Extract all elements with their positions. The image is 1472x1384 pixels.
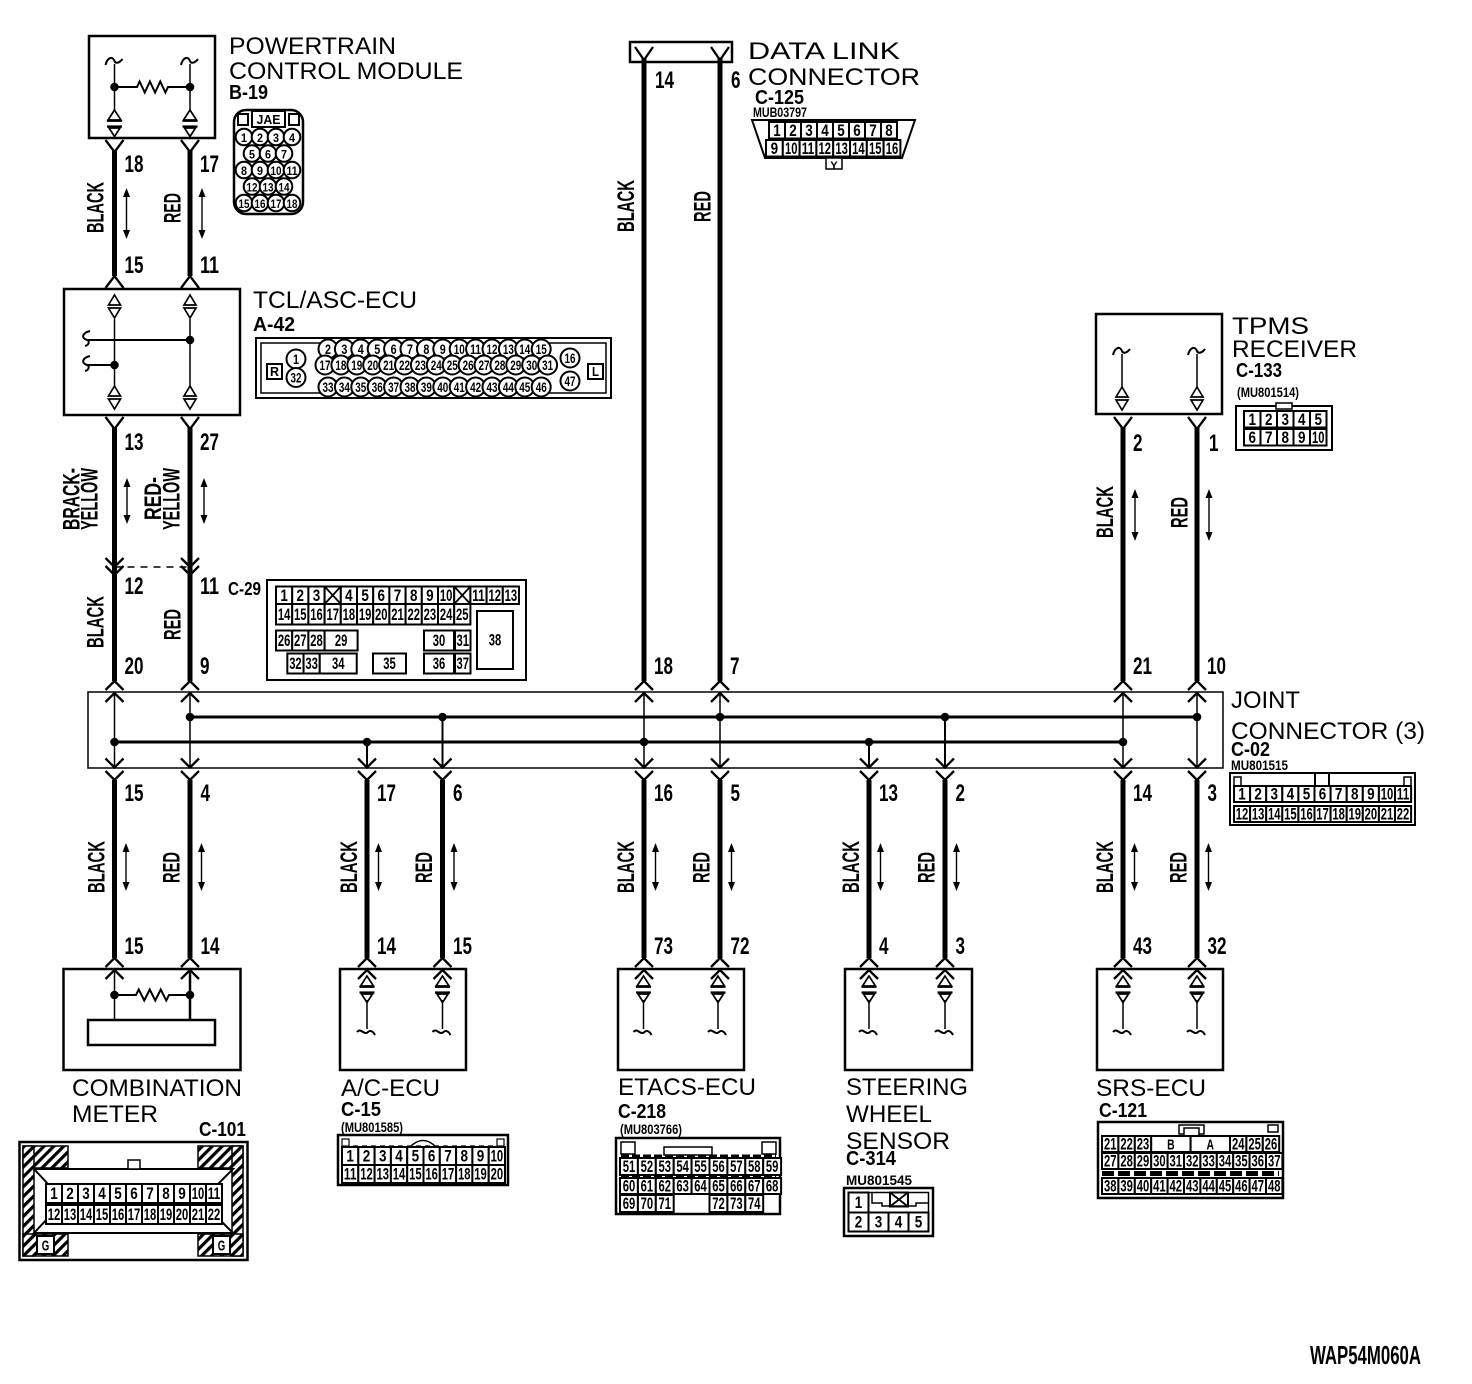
svg-text:58: 58: [748, 1157, 761, 1176]
svg-text:2: 2: [297, 586, 305, 605]
label BLACK (vertical): [838, 841, 865, 893]
svg-text:9: 9: [257, 164, 263, 178]
svg-text:18: 18: [654, 653, 673, 680]
A/C-ECU C-15 box: [340, 969, 466, 1070]
svg-text:13: 13: [377, 1165, 390, 1184]
svg-text:7: 7: [394, 586, 402, 605]
TCL internal branch lower with pigtail: [83, 356, 119, 371]
label MU801515: [1231, 757, 1288, 773]
svg-text:R: R: [270, 364, 280, 379]
svg-text:21: 21: [391, 605, 404, 624]
svg-text:17: 17: [320, 357, 331, 373]
svg-text:2: 2: [257, 131, 263, 145]
svg-text:47: 47: [1252, 1177, 1265, 1196]
svg-text:31: 31: [542, 357, 553, 373]
DLC wire start left: [635, 47, 653, 60]
label CONTROL MODULE: [229, 58, 463, 85]
svg-text:23: 23: [415, 357, 426, 373]
double arrow red: [728, 843, 735, 891]
svg-text:55: 55: [694, 1157, 707, 1176]
wire BLACK pin2-21: [1114, 417, 1132, 681]
svg-text:23: 23: [424, 605, 437, 624]
svg-text:5: 5: [249, 148, 255, 162]
svg-text:7: 7: [444, 1147, 452, 1166]
pin label 9: [200, 653, 210, 680]
pin label 32: [1208, 933, 1227, 960]
pin label 17: [377, 780, 396, 807]
svg-text:32: 32: [291, 370, 302, 386]
svg-text:15: 15: [125, 933, 144, 960]
TCL terminal bottom-left (triangles): [109, 386, 121, 409]
svg-text:13: 13: [505, 586, 518, 605]
label METER: [72, 1101, 158, 1128]
pin label 13: [879, 780, 898, 807]
svg-text:42: 42: [470, 379, 481, 395]
joint internal wire pair5 black: [1119, 692, 1128, 768]
label RED (vertical): [1166, 852, 1193, 883]
svg-text:RED: RED: [159, 852, 186, 883]
joint internal wire pair5 red: [1193, 692, 1202, 768]
svg-text:34: 34: [332, 654, 345, 673]
svg-text:STEERING: STEERING: [846, 1074, 968, 1101]
svg-text:BLACK: BLACK: [84, 841, 111, 893]
svg-text:45: 45: [1219, 1177, 1232, 1196]
svg-text:10: 10: [440, 586, 453, 605]
svg-text:15: 15: [409, 1165, 422, 1184]
PCM terminal right (triangles): [183, 110, 198, 137]
svg-text:46: 46: [536, 379, 547, 395]
svg-text:36: 36: [1252, 1152, 1265, 1171]
svg-text:16: 16: [112, 1205, 125, 1224]
svg-text:3: 3: [875, 1213, 883, 1232]
svg-text:MU801515: MU801515: [1231, 757, 1288, 773]
TCL internal wire left: [114, 319, 116, 386]
label RED (vertical): [411, 852, 438, 883]
label JOINT: [1231, 687, 1300, 714]
svg-text:8: 8: [461, 1147, 469, 1166]
svg-text:14: 14: [852, 139, 865, 158]
joint internal stub pair2 black: [363, 738, 372, 768]
svg-text:YELLOW: YELLOW: [77, 468, 104, 530]
svg-text:9: 9: [200, 653, 210, 680]
svg-text:18: 18: [144, 1205, 157, 1224]
wire BLACK 17-14: [358, 780, 376, 979]
label RED (vertical): [914, 852, 941, 883]
svg-text:1: 1: [855, 1193, 863, 1212]
label RED (vertical): [159, 852, 186, 883]
svg-text:14: 14: [1133, 780, 1152, 807]
svg-text:4: 4: [1287, 785, 1295, 804]
svg-text:34: 34: [339, 379, 350, 395]
svg-text:17: 17: [128, 1205, 141, 1224]
svg-text:A-42: A-42: [253, 314, 295, 336]
double arrow black wire: [123, 188, 130, 239]
svg-text:9: 9: [440, 341, 446, 357]
svg-text:WHEEL: WHEEL: [846, 1101, 932, 1128]
svg-text:3: 3: [805, 121, 813, 140]
svg-text:11: 11: [472, 586, 485, 605]
svg-text:42: 42: [1170, 1177, 1183, 1196]
label POWERTRAIN: [229, 33, 396, 60]
wire RED 2-3: [936, 780, 954, 979]
svg-text:4: 4: [289, 131, 295, 145]
svg-text:15: 15: [453, 933, 472, 960]
svg-text:5: 5: [374, 341, 380, 357]
joint internal wire pair3 red: [716, 692, 725, 768]
svg-text:53: 53: [659, 1157, 672, 1176]
svg-text:21: 21: [1133, 653, 1152, 680]
svg-text:6: 6: [428, 1147, 436, 1166]
svg-text:13: 13: [835, 139, 848, 158]
connector C-121 pin diagram: [1098, 1122, 1283, 1198]
svg-text:COMBINATION: COMBINATION: [72, 1075, 242, 1102]
svg-text:37: 37: [457, 654, 470, 673]
svg-text:6: 6: [391, 341, 397, 357]
svg-text:RED: RED: [411, 852, 438, 883]
svg-text:RED: RED: [160, 193, 187, 223]
TCL internal wire right: [189, 319, 191, 386]
svg-text:C-121: C-121: [1099, 1100, 1147, 1122]
TPMS receiver C-133 box: [1096, 314, 1222, 414]
svg-text:8: 8: [162, 1184, 170, 1203]
svg-text:SRS-ECU: SRS-ECU: [1096, 1075, 1206, 1102]
label RECEIVER: [1232, 336, 1357, 363]
svg-text:METER: METER: [72, 1101, 158, 1128]
label BLACK (vertical) below C-29: [83, 596, 110, 648]
svg-text:BLACK: BLACK: [336, 841, 363, 893]
svg-text:44: 44: [1202, 1177, 1215, 1196]
svg-text:C-15: C-15: [341, 1099, 381, 1121]
svg-text:30: 30: [526, 357, 537, 373]
svg-text:27: 27: [1104, 1152, 1117, 1171]
svg-text:2: 2: [1133, 430, 1143, 457]
pin label 4: [879, 933, 889, 960]
svg-text:13: 13: [879, 780, 898, 807]
ETACS-ECU C-218 box: [618, 969, 744, 1070]
label A-42: [253, 314, 295, 336]
svg-text:43: 43: [1186, 1177, 1199, 1196]
svg-text:8: 8: [423, 341, 429, 357]
pin label 15: [125, 933, 144, 960]
svg-text:33: 33: [1202, 1152, 1215, 1171]
svg-text:MU801545: MU801545: [846, 1172, 912, 1188]
svg-text:2: 2: [855, 1213, 863, 1232]
svg-text:4: 4: [98, 1184, 106, 1203]
svg-text:1: 1: [280, 586, 288, 605]
svg-text:39: 39: [1120, 1177, 1133, 1196]
svg-text:13: 13: [503, 341, 514, 357]
svg-text:12: 12: [48, 1205, 61, 1224]
svg-text:BLACK: BLACK: [83, 182, 110, 233]
connector C-133 pin diagram: [1236, 403, 1332, 450]
svg-text:9: 9: [178, 1184, 186, 1203]
wire RED pin17-11: [181, 140, 199, 288]
svg-text:3: 3: [1282, 410, 1290, 429]
svg-text:JOINT: JOINT: [1231, 687, 1300, 714]
svg-text:5: 5: [412, 1147, 420, 1166]
pin label 17: [200, 151, 219, 178]
svg-text:4: 4: [201, 780, 211, 807]
label B-19: [229, 82, 268, 104]
pin label 13: [125, 429, 144, 456]
svg-text:40: 40: [1137, 1177, 1150, 1196]
svg-text:17: 17: [271, 197, 282, 211]
svg-text:35: 35: [1235, 1152, 1248, 1171]
svg-text:9: 9: [1367, 785, 1375, 804]
svg-text:2: 2: [363, 1147, 371, 1166]
pin label 14: [377, 933, 396, 960]
svg-text:7: 7: [281, 148, 287, 162]
svg-text:1: 1: [773, 121, 781, 140]
pin label 3: [956, 933, 966, 960]
svg-text:3: 3: [379, 1147, 387, 1166]
PCM internal lead right with pigtail: [181, 58, 198, 110]
label C-133: [1236, 360, 1282, 382]
svg-text:G: G: [218, 1238, 226, 1255]
svg-text:54: 54: [676, 1157, 689, 1176]
svg-text:45: 45: [519, 379, 530, 395]
svg-text:18: 18: [287, 197, 298, 211]
meter internal block: [88, 1020, 215, 1045]
pin label 18: [654, 653, 673, 680]
svg-text:13: 13: [263, 181, 274, 195]
TCL terminal top-right (triangles): [184, 295, 196, 318]
PCM terminal left (triangles): [107, 110, 122, 137]
label BLACK (vertical): [84, 841, 111, 893]
svg-text:(MU803766): (MU803766): [620, 1121, 682, 1137]
svg-text:27: 27: [294, 631, 307, 650]
svg-text:20: 20: [125, 653, 144, 680]
svg-text:BLACK: BLACK: [1092, 841, 1119, 893]
C-29 crossing marks red wire: [181, 558, 199, 575]
label C-121: [1099, 1100, 1147, 1122]
TCL/ASC-ECU A-42 box: [64, 289, 240, 415]
svg-text:13: 13: [64, 1205, 77, 1224]
svg-text:14: 14: [393, 1165, 406, 1184]
svg-text:28: 28: [310, 631, 323, 650]
svg-text:22: 22: [407, 605, 420, 624]
svg-text:64: 64: [694, 1177, 707, 1196]
label BLACK (vertical): [83, 182, 110, 233]
joint internal stub pair4 red: [941, 713, 950, 768]
svg-text:52: 52: [641, 1157, 654, 1176]
svg-text:11: 11: [802, 139, 815, 158]
svg-text:8: 8: [1351, 785, 1359, 804]
svg-text:31: 31: [1170, 1152, 1183, 1171]
svg-text:6: 6: [130, 1184, 138, 1203]
data link connector box: [630, 42, 732, 62]
svg-text:12: 12: [360, 1165, 373, 1184]
label A/C-ECU: [341, 1075, 440, 1102]
TCL terminal top-left (triangles): [109, 295, 121, 318]
svg-text:10: 10: [491, 1147, 504, 1166]
svg-text:22: 22: [1397, 805, 1410, 824]
svg-text:7: 7: [869, 121, 877, 140]
svg-text:DATA LINK: DATA LINK: [748, 38, 900, 65]
svg-text:57: 57: [730, 1157, 743, 1176]
svg-text:8: 8: [241, 164, 247, 178]
svg-text:13: 13: [125, 429, 144, 456]
svg-text:14: 14: [377, 933, 396, 960]
svg-text:47: 47: [565, 373, 576, 389]
svg-text:WAP54M060A: WAP54M060A: [1310, 1340, 1421, 1370]
svg-text:65: 65: [712, 1177, 725, 1196]
label CONNECTOR (3): [1231, 718, 1425, 745]
svg-text:63: 63: [676, 1177, 689, 1196]
svg-text:14: 14: [655, 67, 674, 94]
wire RED 3-32: [1188, 780, 1206, 979]
svg-text:56: 56: [712, 1157, 725, 1176]
svg-text:5: 5: [1315, 410, 1323, 429]
label BLACK (vertical): [336, 841, 363, 893]
svg-text:32: 32: [289, 654, 302, 673]
svg-text:15: 15: [96, 1205, 109, 1224]
svg-text:14: 14: [278, 605, 291, 624]
svg-text:7: 7: [730, 653, 740, 680]
svg-text:12: 12: [247, 181, 258, 195]
svg-text:29: 29: [1137, 1152, 1150, 1171]
svg-text:51: 51: [623, 1157, 636, 1176]
label CONNECTOR: [748, 64, 920, 91]
label C-02: [1231, 739, 1270, 761]
label MUB03797: [753, 104, 807, 120]
pin label 14: [1133, 780, 1152, 807]
label BLACK (vertical) DLC: [613, 180, 640, 232]
pin label 7: [730, 653, 740, 680]
svg-text:9: 9: [426, 586, 434, 605]
joint internal stub pair4 black: [865, 738, 874, 768]
svg-text:73: 73: [730, 1194, 743, 1213]
svg-text:30: 30: [433, 631, 446, 650]
label BLACK (vertical): [1092, 841, 1119, 893]
double arrow red: [1205, 843, 1212, 891]
svg-text:28: 28: [1120, 1152, 1133, 1171]
svg-text:20: 20: [367, 357, 378, 373]
TCL terminal bottom-right (triangles): [184, 386, 196, 409]
svg-text:15: 15: [869, 139, 882, 158]
svg-text:40: 40: [437, 379, 448, 395]
svg-text:33: 33: [305, 654, 318, 673]
svg-text:12: 12: [1236, 805, 1249, 824]
joint connector C-02 box: [88, 692, 1223, 768]
svg-text:CONTROL MODULE: CONTROL MODULE: [229, 58, 463, 85]
svg-text:19: 19: [160, 1205, 173, 1224]
joint internal wire pair1 black: [110, 692, 119, 768]
pin label 27: [200, 429, 219, 456]
label MU801545: [846, 1172, 912, 1188]
joint internal stub pair2 red: [438, 713, 447, 768]
svg-text:14: 14: [519, 341, 530, 357]
svg-text:37: 37: [1268, 1152, 1281, 1171]
svg-text:Y: Y: [830, 160, 838, 172]
terminating resistor inside meter: [110, 990, 194, 1001]
svg-text:15: 15: [239, 197, 250, 211]
svg-text:10: 10: [1312, 428, 1325, 447]
wire RED pin6-7: [718, 58, 723, 681]
svg-text:35: 35: [355, 379, 366, 395]
pin label 12: [125, 573, 144, 600]
svg-text:4: 4: [879, 933, 889, 960]
svg-text:17: 17: [442, 1165, 455, 1184]
pin label 6: [731, 67, 741, 94]
svg-text:24: 24: [440, 605, 453, 624]
wire BLACK 16-73: [635, 780, 653, 979]
label WHEEL: [846, 1101, 932, 1128]
svg-text:29: 29: [510, 357, 521, 373]
svg-text:2: 2: [1265, 410, 1273, 429]
pin label 2: [956, 780, 966, 807]
svg-text:46: 46: [1235, 1177, 1248, 1196]
double arrow black: [877, 843, 884, 891]
svg-text:74: 74: [748, 1194, 761, 1213]
svg-text:TCL/ASC-ECU: TCL/ASC-ECU: [253, 287, 417, 314]
svg-text:20: 20: [491, 1165, 504, 1184]
connector C-125 pin diagram: [752, 120, 915, 172]
svg-text:14: 14: [1268, 805, 1281, 824]
double arrow red: [953, 843, 960, 891]
label (MU803766): [620, 1121, 682, 1137]
wire RED pin1-10: [1188, 417, 1206, 681]
meter internal lead right: [189, 970, 192, 1020]
svg-text:15: 15: [294, 605, 307, 624]
label C-218: [618, 1101, 666, 1123]
svg-text:27: 27: [200, 429, 219, 456]
svg-text:17: 17: [1316, 805, 1329, 824]
label TPMS: [1232, 313, 1309, 340]
svg-text:3: 3: [82, 1184, 90, 1203]
svg-text:43: 43: [487, 379, 498, 395]
svg-text:66: 66: [730, 1177, 743, 1196]
label (MU801514): [1237, 384, 1299, 400]
svg-text:4: 4: [345, 586, 353, 605]
pin label 73: [654, 933, 673, 960]
svg-text:3: 3: [1208, 780, 1218, 807]
svg-text:71: 71: [659, 1194, 672, 1213]
svg-text:14: 14: [279, 181, 290, 195]
pin label 4: [201, 780, 211, 807]
pin label 15: [453, 933, 472, 960]
svg-text:26: 26: [463, 357, 474, 373]
svg-text:12: 12: [819, 139, 832, 158]
svg-text:C-133: C-133: [1236, 360, 1282, 382]
svg-text:72: 72: [712, 1194, 725, 1213]
svg-text:5: 5: [114, 1184, 122, 1203]
label ETACS-ECU: [618, 1074, 756, 1101]
svg-text:43: 43: [1133, 933, 1152, 960]
svg-text:21: 21: [383, 357, 394, 373]
svg-text:15: 15: [125, 252, 144, 279]
svg-text:39: 39: [421, 379, 432, 395]
svg-text:L: L: [592, 364, 599, 379]
label RED-YELLOW (vertical two lines): [140, 468, 186, 530]
svg-text:33: 33: [323, 379, 334, 395]
svg-text:11: 11: [200, 573, 219, 600]
double arrow black: [1131, 843, 1138, 891]
svg-text:36: 36: [372, 379, 383, 395]
label TCL/ASC-ECU: [253, 287, 417, 314]
svg-text:20: 20: [1365, 805, 1378, 824]
svg-text:7: 7: [407, 341, 413, 357]
svg-text:24: 24: [431, 357, 442, 373]
svg-text:JAE: JAE: [257, 112, 281, 127]
label C-15: [341, 1099, 381, 1121]
svg-text:59: 59: [766, 1157, 779, 1176]
svg-text:RED: RED: [160, 609, 187, 640]
svg-text:BLACK: BLACK: [613, 180, 640, 232]
svg-text:67: 67: [748, 1177, 761, 1196]
svg-text:G: G: [42, 1238, 50, 1255]
svg-text:11: 11: [344, 1165, 357, 1184]
